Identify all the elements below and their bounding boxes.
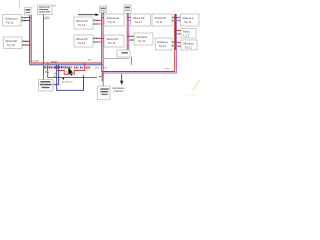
wire purple drop into box K: [102, 73, 104, 86]
port label row: [44, 66, 108, 69]
stub S3 red: [126, 13, 128, 15]
junction green ticks: [43, 64, 45, 66]
connector stubs C6: [176, 42, 181, 47]
wire red drop from box T1 through bus into box E: [43, 15, 45, 80]
connector stubs A3: [102, 18, 104, 21]
yellow pencil smudge: [186, 81, 199, 96]
connector stubs B2m: [93, 37, 103, 42]
connector stubs A2m: [93, 19, 103, 25]
wire V3 purple vertical: [128, 13, 130, 50]
box T1: [38, 5, 53, 15]
wire red U loop in central cluster: [64, 63, 85, 74]
wire red stub segment central: [57, 70, 65, 72]
junction marker black: [62, 78, 64, 81]
wire V1 red vertical from switch S1 down to bus: [31, 15, 102, 63]
connector stubs B1: [22, 40, 31, 45]
connector stubs A5: [172, 17, 176, 22]
box C5: [181, 29, 196, 39]
access point S3: [124, 5, 131, 13]
box B3: [104, 35, 124, 47]
label hardware: [113, 86, 126, 93]
antenna mark above S1: [19, 0, 21, 8]
switch S1: [25, 8, 32, 16]
svg-text:p=18: p=18: [33, 61, 39, 63]
svg-text:xx xxxx xx: xx xxxx xx: [62, 81, 73, 83]
wire blue vertical to box E stub: [53, 65, 59, 85]
connector stubs A1: [21, 17, 31, 22]
svg-text:Tip 14: Tip 14: [78, 23, 86, 27]
svg-text:Tip 11: Tip 11: [6, 21, 14, 25]
svg-text:Wired AP: Wired AP: [155, 16, 167, 20]
box K: [98, 86, 111, 100]
svg-text:Tip 14: Tip 14: [78, 41, 86, 45]
box B1: [4, 37, 23, 49]
box A3: [104, 14, 124, 26]
connector stubs B3: [102, 38, 104, 42]
connector stubs A6: [176, 17, 180, 22]
svg-text:switch: switch: [51, 60, 58, 63]
svg-text:Tip 11: Tip 11: [184, 20, 192, 24]
wire red drop below loop at V2: [101, 72, 103, 81]
svg-text:Tip 11: Tip 11: [185, 46, 193, 50]
box A6: [181, 14, 200, 26]
wire purple vertical to box E lower stub: [57, 65, 84, 91]
arrow annotation down: [120, 74, 124, 85]
box B2m: [74, 35, 93, 47]
mouse cursor: [68, 67, 73, 76]
box A5: [152, 14, 172, 26]
svg-text:Tip 16: Tip 16: [7, 43, 15, 47]
svg-text:Tip 11: Tip 11: [138, 39, 146, 43]
wire purple stub below S4: [130, 57, 132, 65]
svg-text:problem: problem: [114, 89, 125, 93]
svg-text:Tip 11: Tip 11: [108, 41, 116, 45]
wire V2 purple vertical + right loop: [103, 13, 176, 73]
wire V1 blue vertical from switch S1 down to bus: [29, 15, 31, 65]
svg-text:1.2.2: 1.2.2: [183, 34, 190, 38]
box B4: [134, 33, 153, 45]
svg-text:Tip 11: Tip 11: [156, 22, 163, 24]
access point S2: [100, 6, 107, 13]
box B5: [156, 38, 173, 50]
box C6: [181, 40, 197, 50]
wire gray stub right of T1 red line: [44, 18, 50, 20]
connector stubs B4: [127, 35, 134, 40]
arrow annotation right: [78, 13, 99, 16]
svg-text:Tip 11: Tip 11: [135, 20, 143, 24]
box A2m: [74, 17, 93, 29]
connector stubs C5: [176, 30, 181, 35]
stub S2 red: [102, 13, 104, 16]
svg-text:Tip 11: Tip 11: [159, 44, 167, 48]
wire V2 red vertical + right loop: [102, 13, 175, 72]
svg-text:Tip 11: Tip 11: [108, 20, 116, 24]
wire gray line left of S4: [104, 58, 129, 60]
wire gray stub from T1: [52, 5, 56, 7]
wire V4 blue vertical segment: [175, 14, 177, 50]
box A1: [3, 15, 22, 27]
wire V3 red vertical between A3 A4: [126, 13, 128, 50]
connector stubs A4: [127, 18, 130, 21]
switch S4: [117, 50, 130, 57]
wire purple stub right of V2: [100, 76, 103, 78]
box E router: [39, 80, 54, 92]
wire red branch from bus to central cluster: [48, 63, 97, 77]
box A4: [131, 14, 151, 26]
connector stubs B5: [172, 41, 176, 46]
